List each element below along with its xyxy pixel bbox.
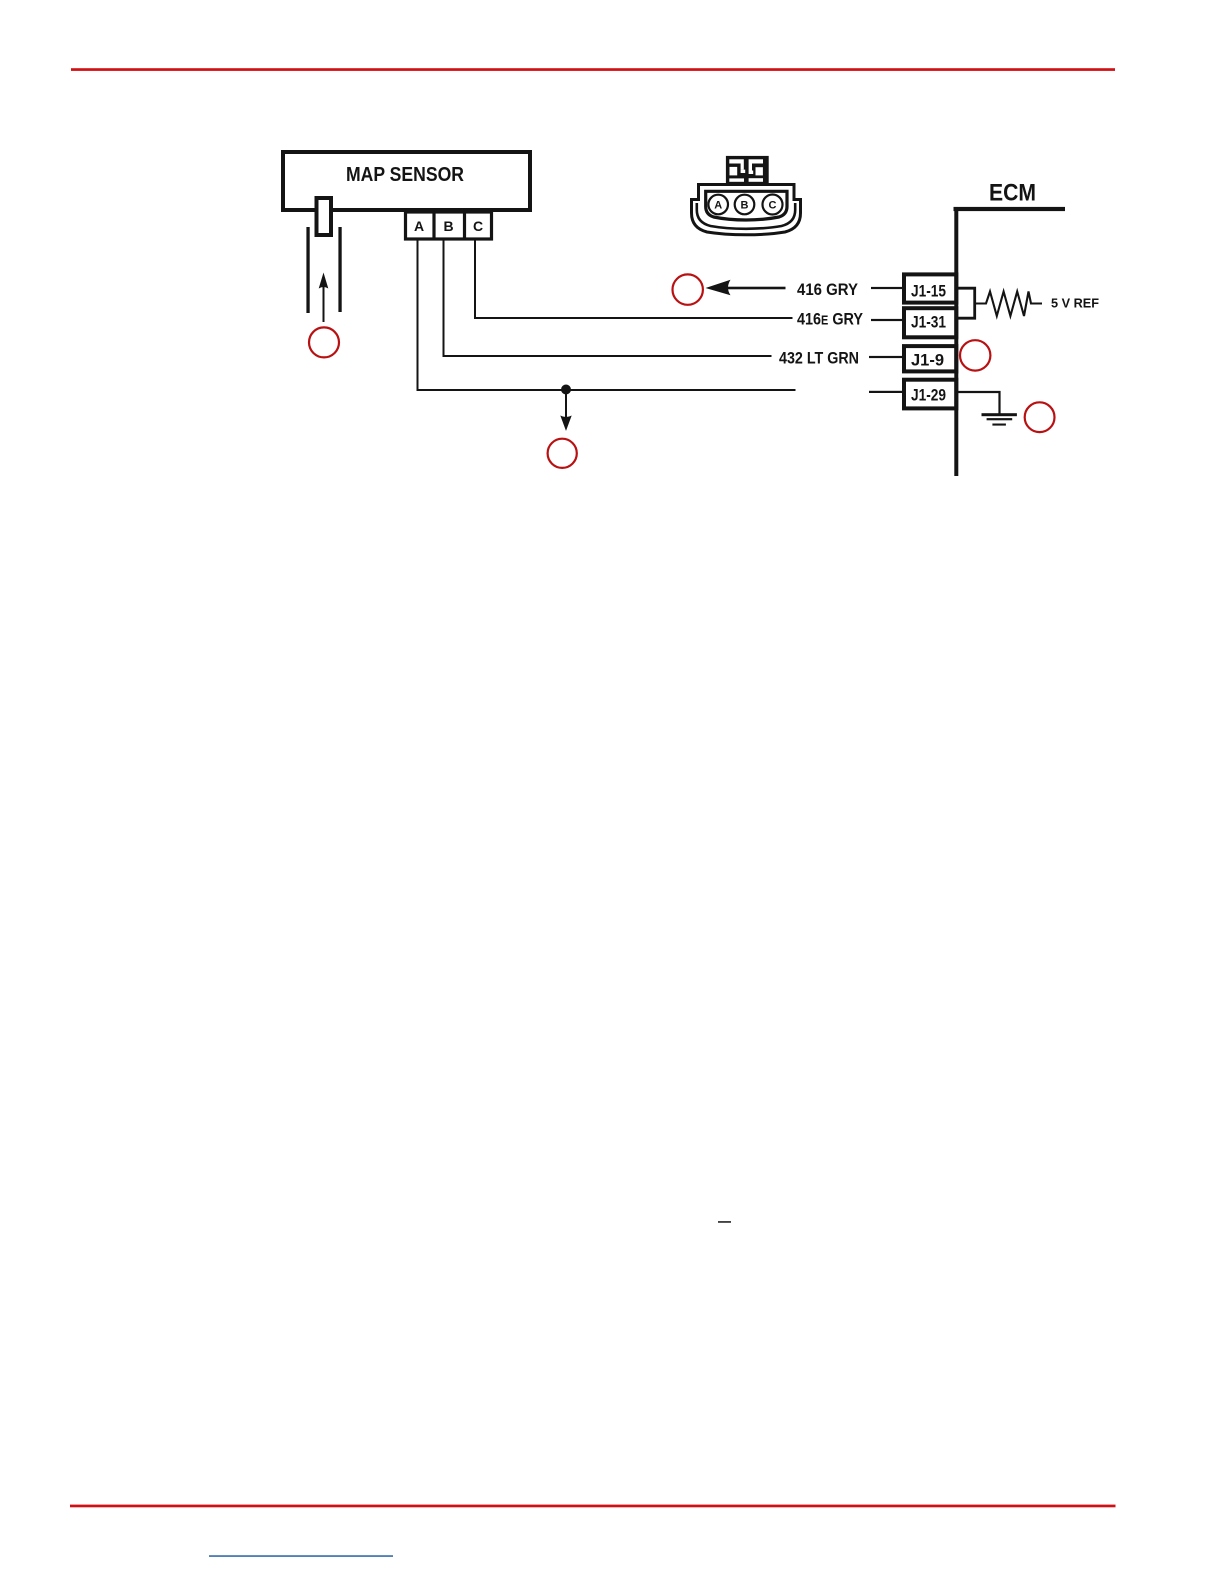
svg-text:A: A	[414, 218, 424, 234]
svg-text:B: B	[741, 199, 749, 211]
svg-text:416 GRY: 416 GRY	[797, 281, 858, 299]
svg-text:432 LT GRN: 432 LT GRN	[779, 350, 859, 368]
ground symbol	[982, 413, 1017, 425]
svg-text:C: C	[769, 199, 777, 211]
vacuum arrow	[323, 287, 325, 322]
footer link underline	[209, 1555, 393, 1557]
svg-text:J1-31: J1-31	[911, 313, 946, 332]
stub to J1-29	[869, 391, 904, 393]
wire A	[418, 239, 796, 390]
callout circle 3	[960, 340, 990, 370]
pin block ABC	[406, 212, 492, 239]
svg-text:B: B	[443, 218, 453, 234]
stub to J1-15	[871, 287, 904, 289]
svg-text:ECM: ECM	[989, 180, 1036, 207]
416 GRY arrow	[706, 280, 731, 295]
ECM pin J1-15	[904, 274, 956, 302]
stub to J1-31	[871, 319, 904, 321]
ECM pin J1-31	[904, 308, 956, 337]
svg-text:416E GRY: 416E GRY	[797, 311, 863, 329]
callout circle 4	[1025, 402, 1055, 432]
callout circle 1	[309, 327, 339, 357]
ECM pin J1-29	[904, 380, 956, 409]
svg-text:A: A	[714, 199, 722, 211]
vacuum tube left wall	[306, 227, 309, 313]
svg-text:C: C	[473, 218, 483, 234]
svg-text:J1-15: J1-15	[911, 281, 946, 300]
wire B	[444, 239, 772, 356]
ECM top rule	[954, 207, 1066, 211]
connector cavity A	[708, 195, 728, 215]
svg-text:J1-29: J1-29	[911, 385, 946, 404]
wire C	[475, 239, 793, 318]
bottom red rule	[70, 1505, 1116, 1508]
svg-text:J1-9: J1-9	[911, 351, 944, 370]
resistor bracket	[957, 288, 975, 318]
ground wire from J1-29	[957, 392, 1000, 414]
stub to J1-9	[869, 356, 904, 358]
svg-text:MAP SENSOR: MAP SENSOR	[346, 164, 464, 186]
junction dot	[561, 385, 571, 395]
svg-text:5 V REF: 5 V REF	[1051, 297, 1099, 311]
harness connector body	[692, 185, 801, 235]
page underscore mark	[718, 1221, 731, 1223]
callout circle 5	[548, 439, 577, 468]
junction arrow down	[565, 391, 567, 421]
callout circle 2	[673, 274, 703, 304]
resistor R (5V pullup)	[975, 292, 1042, 317]
top red rule	[71, 68, 1115, 71]
connector cavity C	[763, 195, 783, 215]
vacuum port	[317, 198, 332, 235]
MAP sensor box	[283, 152, 530, 210]
vacuum tube right wall	[338, 227, 341, 312]
harness connector lock tab	[726, 156, 769, 185]
ECM vertical line	[954, 207, 958, 476]
connector cavity B	[735, 195, 755, 215]
ECM pin J1-9	[904, 346, 956, 371]
